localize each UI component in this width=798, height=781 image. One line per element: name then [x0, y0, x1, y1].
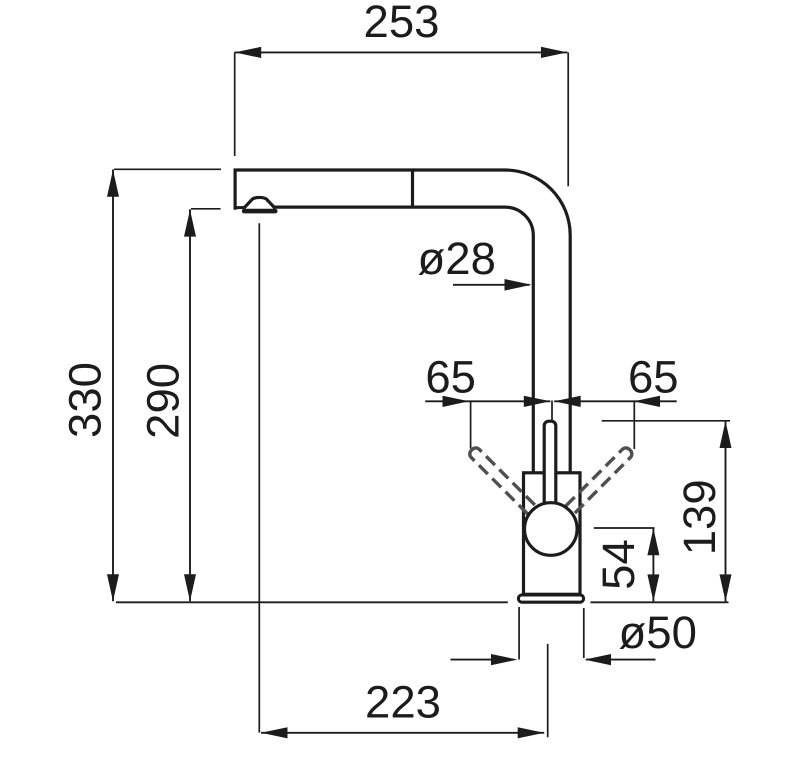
- svg-text:253: 253: [364, 0, 440, 47]
- svg-text:65: 65: [628, 352, 679, 403]
- diameter 50 label: [619, 607, 697, 658]
- svg-text:65: 65: [425, 352, 476, 403]
- spout inner outline: [274, 207, 533, 473]
- dimension 223 extension left: [258, 223, 260, 732]
- dimension 223 extension right: [547, 644, 549, 737]
- sprayhead joint line: [411, 170, 414, 206]
- dimension 65 right label: [628, 352, 679, 403]
- diameter 28 leader arrow: [453, 279, 532, 291]
- base flange: [518, 595, 583, 602]
- dimension 54 line: [647, 528, 659, 601]
- dimension 65 right extension: [633, 401, 635, 449]
- dimension 139 extension top: [602, 420, 730, 422]
- svg-text:330: 330: [60, 362, 111, 438]
- dimension 223 line: [261, 727, 544, 738]
- dimension 330 line: [107, 170, 119, 602]
- svg-text:290: 290: [138, 363, 189, 439]
- diameter 50 extension right: [583, 608, 585, 658]
- deck line left: [116, 601, 508, 603]
- dimension 54 label: [593, 539, 644, 590]
- dimension 54 extension top: [594, 527, 655, 529]
- dimension 223 label: [365, 677, 441, 728]
- ball joint circle: [525, 503, 578, 556]
- spray nozzle dome: [242, 197, 278, 213]
- spout outer outline: [235, 170, 570, 473]
- dimension 65 left line: [425, 396, 550, 407]
- dashed lever swung left: [468, 446, 555, 533]
- dimension 253 line: [235, 47, 568, 58]
- dashed lever swung right: [547, 446, 634, 533]
- diameter 28 label: [418, 233, 496, 284]
- svg-text:139: 139: [674, 479, 725, 555]
- svg-text:ø50: ø50: [619, 607, 697, 658]
- dimension 65 left label: [425, 352, 476, 403]
- deck line right: [591, 601, 729, 603]
- diameter 50 right arrow: [585, 654, 656, 665]
- dimension 290 label: [138, 363, 189, 439]
- diameter 50 left arrow: [451, 654, 518, 665]
- dimension 290 line: [184, 209, 196, 601]
- dimension 65 left extension: [470, 401, 472, 448]
- dimension 65 right line: [554, 396, 677, 407]
- svg-text:223: 223: [365, 677, 441, 728]
- svg-text:ø28: ø28: [418, 233, 496, 284]
- upright lever handle: [544, 421, 556, 513]
- sprayhead bottom-left stub: [234, 206, 245, 209]
- dimension 330 extension top: [114, 168, 221, 170]
- diameter 50 extension left: [518, 607, 520, 660]
- dimension 330 label: [60, 362, 111, 438]
- dimension 139 line: [720, 421, 732, 602]
- dimension 253 extension right: [567, 52, 569, 186]
- body cylinder: [524, 473, 581, 595]
- svg-text:54: 54: [593, 539, 644, 590]
- lever centre line: [551, 401, 553, 421]
- dimension 253 extension left: [234, 52, 236, 156]
- dimension 139 label: [674, 479, 725, 555]
- dimension 290 extension top: [191, 208, 221, 210]
- dimension 253 label: [364, 0, 440, 47]
